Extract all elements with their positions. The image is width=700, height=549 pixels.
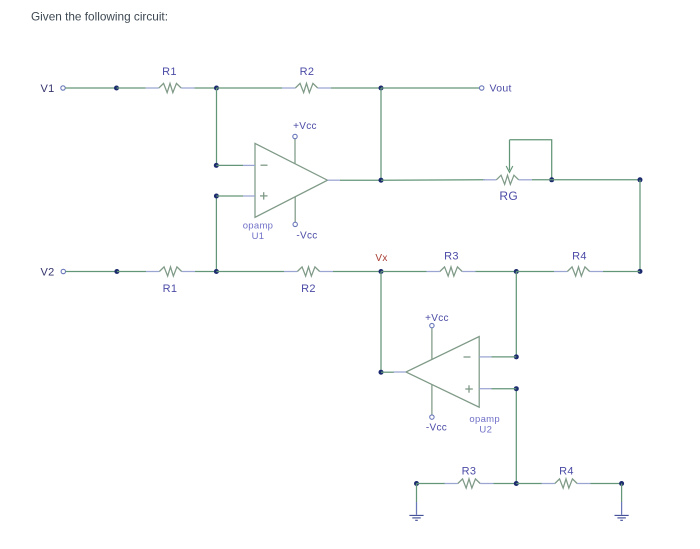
wire [215, 196, 217, 272]
resistor R4 [554, 267, 603, 276]
resistor R3 (divider) [445, 479, 494, 488]
node Vout-feedback junction [379, 86, 384, 91]
op-amp U2 [394, 337, 492, 408]
wire [195, 87, 217, 89]
svg-text:U2: U2 [479, 425, 492, 436]
wire [381, 179, 485, 181]
terminal V2 [61, 269, 65, 273]
terminal V1 [61, 86, 65, 90]
wire [217, 87, 283, 89]
wire [532, 179, 552, 181]
wire [381, 87, 480, 89]
power -Vcc (U1) [293, 197, 297, 227]
wire [515, 389, 517, 484]
svg-text:U1: U1 [252, 231, 265, 242]
svg-text:R2: R2 [300, 66, 315, 78]
svg-text:+Vcc: +Vcc [425, 313, 449, 324]
wire [603, 271, 640, 273]
resistor R1 (V2 branch) [146, 267, 195, 276]
svg-text:opamp: opamp [243, 221, 274, 232]
svg-text:-Vcc: -Vcc [426, 423, 447, 434]
wire [117, 87, 146, 89]
junction U2 output [379, 370, 384, 375]
wire [331, 87, 381, 89]
resistor R2 (V2 branch) [284, 267, 333, 276]
wire [195, 271, 216, 273]
junction RG wiper [549, 177, 554, 182]
power -Vcc (U2) [430, 385, 434, 420]
svg-text:R4: R4 [572, 251, 587, 263]
junction U1 output [379, 178, 384, 183]
wire [494, 483, 517, 485]
node B junction [214, 269, 219, 274]
svg-text:R2: R2 [301, 283, 316, 295]
svg-text:V2: V2 [40, 267, 54, 279]
wire [516, 483, 542, 485]
wire [591, 483, 622, 485]
wire [117, 271, 146, 273]
junction ground right [619, 481, 624, 486]
corner node [638, 177, 643, 182]
corner node [638, 269, 643, 274]
wire [340, 179, 381, 181]
resistor R4 (divider) [542, 479, 591, 488]
wire [639, 180, 641, 272]
junction U2 non-inverting input [514, 386, 519, 391]
junction U1 inverting input [214, 163, 219, 168]
svg-text:R3: R3 [462, 466, 477, 478]
wire [516, 271, 554, 273]
junction R3-R4 [514, 269, 519, 274]
wire [216, 88, 218, 165]
resistor R1 [146, 83, 195, 92]
wire [515, 272, 517, 357]
junction U2 inverting input [514, 354, 519, 359]
wire [417, 483, 446, 485]
svg-text:V1: V1 [40, 83, 54, 95]
resistor R2 [282, 83, 331, 92]
wire [380, 272, 382, 373]
svg-text:-Vcc: -Vcc [296, 231, 317, 242]
wire [381, 271, 427, 273]
wire [333, 271, 381, 273]
wire [380, 88, 382, 180]
wire [65, 87, 116, 89]
wire [476, 271, 517, 273]
wire [492, 388, 517, 390]
resistor RG [483, 175, 532, 184]
svg-text:Vx: Vx [375, 253, 387, 264]
wire [552, 179, 640, 181]
svg-text:+Vcc: +Vcc [293, 121, 317, 132]
junction ground left [414, 481, 419, 486]
svg-text:Vout: Vout [490, 83, 512, 95]
node Vx [379, 269, 384, 274]
svg-text:R3: R3 [444, 251, 459, 263]
wire [216, 195, 243, 197]
op-amp U1 [243, 143, 340, 217]
wire [510, 140, 552, 180]
svg-text:RG: RG [499, 189, 518, 203]
node V1 junction [114, 86, 119, 91]
svg-text:Given the following circuit:: Given the following circuit: [31, 10, 168, 24]
ground (right) [615, 484, 629, 521]
svg-text:R4: R4 [559, 466, 574, 478]
svg-text:opamp: opamp [469, 414, 500, 425]
wire [381, 371, 394, 373]
wire [492, 356, 517, 358]
wire [216, 164, 243, 166]
terminal Vout [480, 86, 484, 90]
node V2 junction [114, 269, 119, 274]
junction U1 non-inverting input [214, 194, 219, 199]
ground (left) [409, 484, 423, 521]
resistor R3 [427, 267, 476, 276]
power +Vcc (U2) [430, 323, 434, 359]
junction divider mid [514, 481, 519, 486]
svg-text:R1: R1 [163, 283, 178, 295]
power +Vcc (U1) [293, 134, 297, 163]
wire [216, 271, 284, 273]
node A junction [214, 86, 219, 91]
wire [66, 271, 117, 273]
svg-text:R1: R1 [162, 66, 177, 78]
RG wiper arrow [506, 140, 513, 173]
